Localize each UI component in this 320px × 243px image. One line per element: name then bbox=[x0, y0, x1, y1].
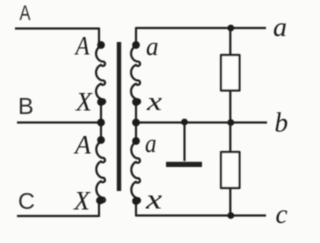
wire c line bbox=[136, 201, 266, 216]
svg-text:a: a bbox=[146, 32, 159, 61]
svg-text:C: C bbox=[18, 188, 35, 214]
ground bar bbox=[166, 162, 202, 167]
primary winding W1 coil bbox=[96, 46, 105, 104]
ground stem bbox=[183, 123, 185, 162]
resistor R2 bbox=[221, 152, 240, 188]
junction dots right column bbox=[132, 41, 140, 205]
wire A line bbox=[15, 29, 99, 45]
junction dot c-R2 bbox=[227, 212, 234, 219]
svg-text:a: a bbox=[145, 129, 157, 158]
wire primary link bbox=[100, 102, 102, 140]
junction dot a-R1 bbox=[227, 25, 234, 32]
transformer core bbox=[117, 42, 121, 191]
wire R2 leads bbox=[229, 123, 231, 216]
svg-text:A: A bbox=[20, 2, 31, 25]
wire B line bbox=[17, 121, 101, 123]
wire C line bbox=[17, 201, 99, 216]
wire b line bbox=[136, 121, 267, 123]
svg-text:A: A bbox=[73, 131, 91, 160]
svg-text:X: X bbox=[73, 187, 91, 216]
junction dot ground-b bbox=[181, 119, 188, 126]
secondary winding w1 coil bbox=[131, 46, 140, 104]
svg-text:A: A bbox=[74, 32, 90, 61]
svg-text:X: X bbox=[75, 88, 93, 117]
svg-text:b: b bbox=[275, 108, 289, 138]
junction dot b-R bbox=[227, 119, 234, 126]
svg-text:x: x bbox=[145, 184, 162, 216]
primary winding W2 coil bbox=[96, 142, 105, 203]
wire R1 leads bbox=[229, 28, 231, 123]
svg-text:B: B bbox=[18, 93, 34, 119]
junction dots left column bbox=[96, 41, 105, 204]
wire secondary link bbox=[135, 102, 137, 141]
secondary winding w2 coil bbox=[131, 142, 140, 203]
wire a line bbox=[136, 28, 266, 45]
svg-text:a: a bbox=[273, 12, 287, 42]
resistor R1 bbox=[221, 55, 240, 91]
svg-text:x: x bbox=[146, 87, 163, 116]
svg-text:c: c bbox=[276, 199, 288, 229]
